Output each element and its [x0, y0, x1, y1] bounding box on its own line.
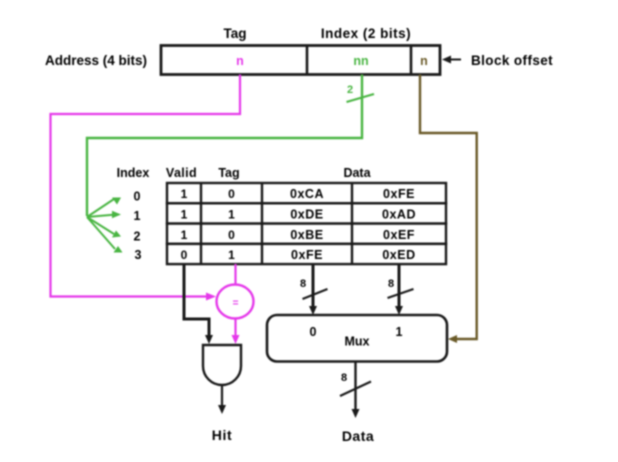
svg-text:n: n	[236, 54, 244, 68]
mux output wire	[354, 362, 356, 412]
svg-text:=: =	[233, 298, 239, 309]
hit output wire	[221, 385, 223, 407]
wire data1 to mux	[398, 264, 401, 308]
slash on output wire	[340, 382, 371, 397]
svg-text:Block offset: Block offset	[471, 53, 553, 68]
svg-text:0: 0	[181, 248, 188, 262]
wire data0 to mux	[312, 264, 315, 308]
svg-text:1: 1	[181, 228, 188, 242]
svg-text:1: 1	[396, 325, 403, 339]
index/offset field divider	[410, 46, 413, 75]
svg-text:0xFE: 0xFE	[383, 187, 415, 201]
arrowhead into comparator	[206, 293, 216, 301]
svg-text:0xDE: 0xDE	[290, 208, 323, 222]
svg-text:8: 8	[300, 278, 306, 290]
arrowhead data1	[395, 306, 403, 315]
svg-text:0xEF: 0xEF	[383, 228, 415, 242]
cache row 3	[167, 244, 446, 264]
address field box	[161, 46, 440, 75]
svg-text:Mux: Mux	[345, 335, 370, 349]
svg-text:Data: Data	[343, 166, 371, 180]
fan arrow to row 0	[87, 199, 114, 217]
fan arrow to row 1	[87, 215, 113, 217]
slash on data0 wire	[303, 289, 328, 299]
cache row 1	[167, 203, 446, 223]
wire index to fan (green)	[87, 75, 362, 217]
svg-text:0xCA: 0xCA	[290, 187, 324, 201]
svg-text:1: 1	[181, 187, 188, 201]
wire comparator to AND gate (magenta)	[234, 318, 236, 337]
svg-text:0xED: 0xED	[382, 248, 415, 262]
svg-text:0: 0	[228, 228, 235, 242]
wire tag to comparator (magenta)	[51, 75, 241, 297]
svg-text:8: 8	[388, 278, 394, 290]
svg-text:2: 2	[134, 230, 141, 244]
arrowhead data0	[309, 306, 317, 315]
arrowhead valid into AND	[205, 335, 213, 344]
fan arrow to row 2	[87, 217, 114, 234]
svg-text:1: 1	[228, 208, 235, 222]
svg-text:0: 0	[228, 187, 235, 201]
svg-text:0: 0	[310, 325, 317, 339]
fan arrow to row 3	[87, 217, 115, 249]
cache row 2	[167, 224, 446, 244]
svg-text:3: 3	[135, 248, 142, 262]
svg-text:Address (4 bits): Address (4 bits)	[45, 53, 147, 68]
cache row 0	[167, 183, 446, 203]
hit arrowhead	[218, 405, 226, 414]
svg-text:0xAD: 0xAD	[382, 208, 416, 222]
mux box	[267, 315, 447, 362]
arrowhead into mux	[448, 335, 457, 343]
svg-text:2: 2	[347, 84, 353, 96]
slash on data1 wire	[388, 289, 414, 298]
comparator circle	[217, 285, 254, 319]
svg-text:Valid: Valid	[166, 166, 197, 180]
bus width slash on index wire	[347, 94, 375, 102]
svg-text:0xBE: 0xBE	[290, 228, 323, 242]
svg-text:Tag: Tag	[218, 166, 239, 180]
data output arrowhead	[352, 409, 360, 418]
svg-text:1: 1	[181, 208, 188, 222]
svg-text:Tag: Tag	[224, 26, 247, 41]
arrowhead comparator into AND	[232, 335, 240, 344]
svg-text:1: 1	[228, 248, 235, 262]
AND gate	[203, 345, 241, 385]
svg-text:Index (2 bits): Index (2 bits)	[321, 26, 411, 41]
wire tag column to comparator (magenta)	[234, 264, 236, 285]
svg-text:n: n	[420, 54, 428, 68]
svg-text:8: 8	[341, 372, 347, 384]
wire valid to AND gate	[184, 264, 209, 337]
svg-text:1: 1	[134, 209, 141, 223]
svg-text:Data: Data	[342, 428, 374, 444]
tag/index field divider	[306, 46, 309, 75]
svg-text:0xFE: 0xFE	[291, 248, 323, 262]
svg-text:nn: nn	[353, 54, 368, 68]
svg-text:0: 0	[134, 190, 141, 204]
block offset arrow	[447, 59, 461, 61]
svg-text:Hit: Hit	[212, 427, 232, 443]
svg-text:Index: Index	[117, 166, 150, 180]
wire block offset to mux (brown)	[420, 75, 477, 340]
